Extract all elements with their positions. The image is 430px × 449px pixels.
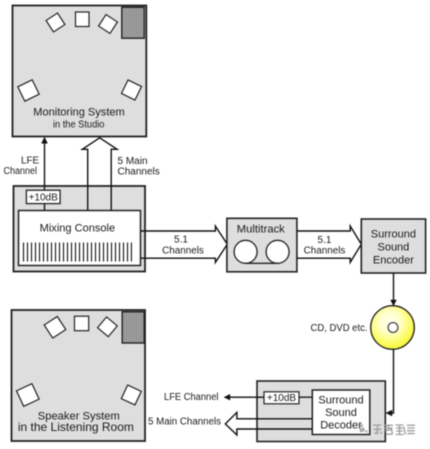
arrow: 5.1 channels multitrack to encoder (block arrow) [297,226,361,262]
speaker: studio front-left [46,13,65,32]
svg-text:+10dB: +10dB [29,193,59,204]
arrow: 5.1 channels console to multitrack (block arrow) [141,226,228,262]
faders hatch [24,243,132,262]
box: mixing console outer [14,186,146,272]
box: Speaker System in the Listening Room [12,310,146,441]
svg-text:LFE: LFE [21,156,39,167]
svg-text:in the Listening Room: in the Listening Room [18,420,134,434]
speaker: room rear-right [121,385,141,405]
box: Monitoring System in the Studio [13,6,147,137]
box: mixing console [19,211,141,266]
svg-text:CD, DVD etc.: CD, DVD etc. [311,323,368,334]
watermark text (stylized CJK strokes) [373,425,415,435]
wire: LFE channel up-arrow [41,137,48,211]
box: decoder outer [257,381,385,442]
svg-text:Sound: Sound [377,242,409,254]
svg-text:Channels: Channels [304,245,346,256]
wire: encoder to CD [390,273,396,306]
speaker: room rear-left [17,384,40,407]
svg-text:5.1: 5.1 [174,235,188,246]
svg-text:Encoder: Encoder [373,255,414,267]
svg-text:Surround: Surround [318,394,363,406]
box: +10dB gain (studio) [26,190,60,203]
speaker: room front-right [98,317,118,337]
svg-text:LFE Channel: LFE Channel [164,392,219,403]
CD hole [388,323,398,333]
speaker: studio center [76,12,90,27]
speaker: studio rear-right [121,80,141,100]
arrow: 5 main channels out of decoder (block arrow) [225,412,312,435]
wire: CD to decoder [386,349,394,416]
speaker: room front-left [44,317,66,339]
svg-text:+10dB: +10dB [267,393,297,404]
svg-text:5 Main Channels: 5 Main Channels [148,417,221,428]
svg-text:Channels: Channels [162,245,204,256]
box: Multitrack [227,218,297,271]
speaker: studio rear-left [18,80,39,101]
subwoofer: studio [122,7,144,38]
speaker: studio front-right [99,15,118,34]
speaker: room center [75,316,89,331]
reel: left [234,240,257,263]
svg-text:Mixing Console: Mixing Console [40,223,116,235]
svg-text:Channel: Channel [4,166,38,177]
CD disc [371,306,415,350]
reel: right [266,240,289,263]
box: +10dB gain (listening) [264,392,299,404]
box: Surround Sound Decoder [312,390,370,435]
svg-text:in the Studio: in the Studio [53,119,105,130]
wire: +10dB to decoder [299,396,312,398]
arrow: 5 main channels up (block arrow) [82,138,117,211]
svg-text:5.1: 5.1 [318,235,332,246]
tape line [246,262,278,264]
watermark icon [360,424,368,432]
svg-text:Surround: Surround [371,229,416,241]
svg-text:Sound: Sound [325,407,357,419]
svg-text:5 Main: 5 Main [118,156,148,167]
svg-text:Channels: Channels [118,167,160,178]
svg-text:Monitoring System: Monitoring System [33,106,125,118]
wire: LFE channel out of decoder [224,394,264,400]
box: Surround Sound Encoder [361,219,425,273]
svg-text:Multitrack: Multitrack [237,224,286,236]
subwoofer: room [122,312,144,343]
svg-text:Decoder: Decoder [320,420,362,432]
